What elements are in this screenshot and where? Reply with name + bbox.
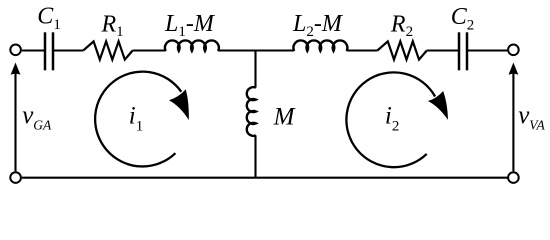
terminal input bottom [10,172,21,183]
label C1 [37,4,61,33]
arrow vVA [509,63,519,172]
svg-text:vVA: vVA [518,102,545,132]
wire L2-M to R2 [347,49,378,51]
label vGA [22,102,52,132]
svg-text:C1: C1 [37,4,61,33]
wire C1 to R1 [54,49,83,51]
arrow vGA [11,63,21,172]
mesh current loop i1 [95,72,189,167]
resistor R1 [83,41,132,59]
svg-text:L2-M: L2-M [292,11,344,40]
wire top-left: terminal to C1 [22,49,44,51]
label L1-M [164,11,216,40]
wire middle vertical upper [254,51,256,88]
wire R2 to C2 [427,49,458,51]
label M [273,103,296,130]
label L2-M [292,11,344,40]
label R2 [390,11,413,40]
mesh current loop i2 [346,72,448,167]
label vVA [518,102,545,132]
inductor L1-M [165,40,219,51]
svg-text:R1: R1 [101,11,124,40]
terminal output top [508,45,519,56]
svg-text:C2: C2 [451,4,475,34]
svg-text:M: M [273,103,296,130]
inductor L2-M [293,40,347,51]
capacitor C1 [45,32,53,70]
inductor M [247,87,256,136]
svg-text:vGA: vGA [22,102,52,132]
wire bottom [22,177,508,179]
wire L1-M to junction to L2-M [218,49,294,51]
label i1 [129,103,143,135]
svg-text:L1-M: L1-M [164,11,216,40]
wire R1 to L1-M [133,49,166,51]
svg-text:R2: R2 [390,11,413,40]
label i2 [385,103,399,135]
label C2 [451,4,475,34]
label R1 [101,11,124,40]
terminal input top [10,45,21,56]
wire middle vertical lower [254,135,256,177]
capacitor C2 [459,32,467,70]
wire C2 to output terminal [468,49,508,51]
terminal output bottom [508,172,519,183]
svg-text:i1: i1 [129,103,143,135]
svg-text:i2: i2 [385,103,399,135]
resistor R2 [377,41,426,59]
